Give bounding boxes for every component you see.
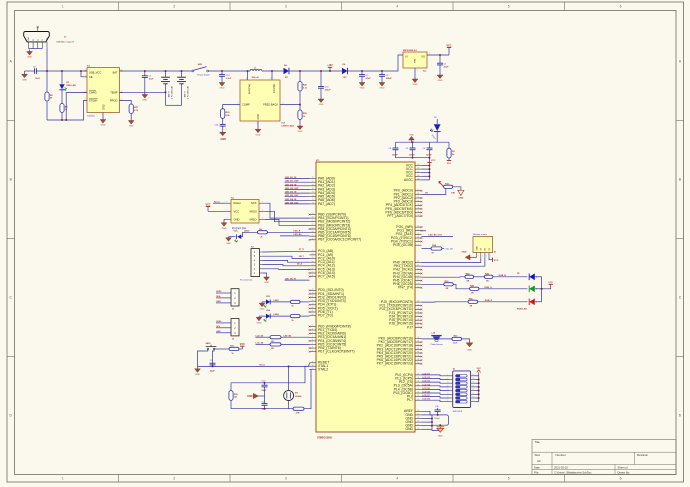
svg-text:LED_B2_OUT: LED_B2_OUT	[285, 188, 299, 190]
svg-text:33: 33	[312, 368, 314, 370]
svg-text:43: 43	[312, 289, 314, 291]
svg-text:89: 89	[417, 337, 419, 339]
svg-text:64: 64	[417, 304, 419, 306]
LED D3 RED-LED	[59, 71, 64, 104]
svg-text:Sheet of: Sheet of	[618, 465, 628, 469]
svg-text:SWITCH: SWITCH	[272, 84, 274, 93]
svg-text:Title: Title	[535, 440, 541, 444]
svg-text:31: 31	[417, 168, 419, 170]
wire main rail left segment	[25, 70, 35, 72]
svg-text:54: 54	[312, 254, 314, 256]
svg-text:LCD_D8: LCD_D8	[423, 399, 430, 401]
svg-text:GND: GND	[27, 57, 32, 59]
svg-text:97: 97	[417, 189, 419, 191]
svg-text:83: 83	[417, 359, 419, 361]
ground	[297, 125, 303, 134]
svg-text:29: 29	[417, 240, 419, 242]
svg-text:GND: GND	[216, 331, 221, 333]
wire cap bottom rail	[396, 157, 430, 159]
svg-text:GND: GND	[22, 79, 27, 81]
svg-text:26: 26	[312, 238, 314, 240]
svg-text:10: 10	[472, 397, 474, 399]
svg-text:3: 3	[257, 123, 258, 125]
svg-text:PD7_(T0): PD7_(T0)	[318, 314, 333, 318]
capacitor C3	[379, 71, 392, 81]
svg-text:95: 95	[417, 197, 419, 199]
svg-text:8: 8	[121, 69, 122, 71]
LED D8 red	[529, 299, 535, 306]
wire reset label isp	[213, 202, 225, 204]
resistor R21 27R	[293, 407, 304, 415]
svg-text:1: 1	[418, 244, 419, 246]
svg-text:PG5_(OC0B): PG5_(OC0B)	[393, 243, 413, 247]
wire nextion RX to PH1	[422, 257, 485, 266]
svg-text:3: 3	[285, 5, 287, 9]
svg-text:GND: GND	[256, 134, 261, 136]
svg-text:1: 1	[85, 69, 86, 71]
wire CHRG branch	[66, 93, 87, 121]
wire switch stub	[271, 71, 273, 80]
switch SW1 power switch	[192, 64, 211, 77]
svg-text:LED_B4_IN: LED_B4_IN	[285, 198, 297, 201]
svg-text:1: 1	[478, 256, 479, 258]
svg-text:67: 67	[417, 315, 419, 317]
connector J6	[216, 319, 239, 341]
svg-text:3: 3	[262, 210, 263, 212]
svg-text:PROG: PROG	[110, 99, 118, 103]
wire PROG to R27	[120, 100, 132, 104]
wire VBUS drop	[46, 49, 48, 72]
svg-text:6: 6	[312, 340, 313, 342]
svg-text:Photo Sensor: Photo Sensor	[431, 343, 443, 346]
resistor R31	[444, 183, 456, 194]
svg-text:PJ7: PJ7	[407, 325, 413, 329]
svg-text:48: 48	[312, 307, 314, 309]
wire charger gnd	[102, 113, 104, 119]
svg-text:10: 10	[417, 164, 419, 166]
svg-text:2: 2	[482, 256, 483, 258]
ground	[221, 222, 227, 230]
svg-text:FEED BACK: FEED BACK	[263, 103, 278, 107]
svg-text:36: 36	[417, 377, 419, 379]
svg-text:41: 41	[417, 395, 419, 397]
svg-text:59: 59	[312, 272, 314, 274]
no-connect marks right	[421, 190, 423, 365]
svg-text:VCC: VCC	[234, 231, 239, 233]
svg-text:2021-03-10: 2021-03-10	[554, 465, 568, 469]
wire COMP to R30	[223, 105, 240, 109]
svg-text:91: 91	[417, 211, 419, 213]
svg-text:VCC: VCC	[494, 260, 499, 262]
svg-text:5: 5	[508, 5, 510, 9]
svg-text:Drawn By:: Drawn By:	[618, 470, 631, 474]
capacitor C9	[33, 66, 41, 80]
svg-text:84: 84	[417, 355, 419, 357]
svg-text:4: 4	[490, 256, 491, 258]
svg-text:16: 16	[472, 374, 474, 376]
svg-text:?: ?	[85, 91, 86, 93]
ground	[142, 93, 148, 102]
svg-text:100nF: 100nF	[434, 418, 440, 420]
svg-text:24: 24	[312, 231, 314, 233]
svg-text:MOSI: MOSI	[250, 209, 257, 213]
svg-text:6: 6	[620, 5, 622, 9]
svg-text:VCC: VCC	[205, 204, 210, 207]
resistor R28	[298, 82, 308, 92]
svg-text:47uF: 47uF	[444, 65, 450, 68]
ground	[437, 74, 443, 83]
svg-text:PL7: PL7	[407, 398, 413, 402]
svg-text:GND: GND	[462, 251, 467, 253]
svg-text:GND: GND	[438, 436, 443, 438]
wire boost gnd	[257, 121, 259, 128]
svg-text:32: 32	[417, 417, 419, 419]
mic29300 pin numbers	[400, 53, 431, 72]
ground isp	[224, 218, 225, 220]
LED D7 green	[529, 286, 535, 293]
wire reset to pin	[307, 363, 310, 367]
svg-text:LED5: LED5	[216, 291, 222, 293]
wire LCD_D6 to PE3	[281, 336, 310, 338]
svg-text:49: 49	[312, 311, 314, 313]
svg-text:TEMP: TEMP	[110, 91, 117, 95]
ground VD3	[262, 301, 266, 303]
wire R20 legs	[230, 383, 232, 391]
svg-text:58: 58	[312, 268, 314, 270]
svg-text:LED_B1_IN: LED_B1_IN	[285, 177, 297, 179]
svg-text:VCC: VCC	[548, 282, 553, 284]
power +12V	[327, 65, 333, 71]
svg-text:30: 30	[312, 361, 314, 363]
svg-text:LCD_D6: LCD_D6	[423, 392, 430, 394]
capacitor C6	[422, 142, 432, 158]
svg-text:J5: J5	[232, 309, 234, 311]
wire CE branch	[81, 71, 87, 77]
svg-text:13: 13	[417, 265, 419, 267]
wire AREF to C12	[422, 411, 431, 415]
svg-text:4: 4	[396, 477, 398, 481]
power VCC nextion	[489, 257, 493, 259]
capacitor C1	[437, 55, 449, 74]
svg-text:CE: CE	[89, 75, 93, 79]
ground	[259, 302, 265, 310]
svg-text:GND: GND	[380, 88, 385, 90]
ground	[195, 366, 201, 376]
svg-text:47: 47	[312, 303, 314, 305]
IC1 left pins	[310, 177, 362, 372]
op-amp IC1 ATMEGA2560 body	[316, 162, 415, 432]
svg-text:GND: GND	[101, 125, 106, 127]
svg-text:File:: File:	[534, 470, 539, 474]
svg-text:?: ?	[85, 99, 86, 101]
svg-text:5: 5	[312, 336, 313, 338]
svg-text:GND: GND	[257, 323, 262, 325]
svg-text:11: 11	[472, 393, 474, 395]
resistor R47	[452, 334, 462, 340]
wire R28 top	[299, 71, 301, 82]
resistor R40	[270, 301, 290, 303]
net labels LED_B on PA pins	[285, 177, 310, 204]
op-amp X3 ISP header	[225, 197, 265, 230]
svg-text:52: 52	[417, 229, 419, 231]
resistor R29	[298, 110, 308, 120]
svg-text:93: 93	[417, 204, 419, 206]
svg-text:68: 68	[417, 319, 419, 321]
resistor R6	[258, 229, 268, 238]
svg-text:11: 11	[417, 414, 419, 416]
inductor L1	[250, 68, 262, 79]
wire R47 to gnd	[462, 339, 470, 343]
wire R40 to PD3	[300, 301, 310, 303]
capacitor C10 xtal	[262, 381, 268, 396]
svg-text:D5: D5	[517, 273, 519, 275]
svg-text:MISO: MISO	[250, 217, 257, 221]
svg-text:LCD_D1: LCD_D1	[423, 373, 430, 375]
wires MCU gnd bus	[422, 415, 441, 431]
svg-text:Revision: Revision	[637, 453, 648, 457]
svg-text:LED_B4_OUT: LED_B4_OUT	[285, 201, 299, 204]
ground	[264, 276, 270, 284]
svg-text:3.7V 2000 mAh: 3.7V 2000 mAh	[171, 86, 174, 99]
svg-text:100nF: 100nF	[409, 154, 416, 156]
svg-text:CHRG: CHRG	[89, 91, 97, 95]
svg-text:38: 38	[417, 384, 419, 386]
svg-text:51: 51	[417, 226, 419, 228]
RGB row red	[422, 301, 469, 303]
svg-text:13: 13	[472, 385, 474, 387]
isp pin numbers	[227, 202, 264, 220]
svg-text:LED4: LED4	[274, 313, 280, 316]
ground	[256, 316, 262, 324]
svg-text:Rx connector: Rx connector	[240, 279, 253, 282]
svg-text:Power Switch: Power Switch	[197, 74, 210, 77]
svg-text:LED_B2_IN: LED_B2_IN	[285, 184, 297, 186]
wire R27 bottom	[130, 114, 132, 120]
svg-text:5: 5	[508, 477, 510, 481]
op-amp X1 Nextion screen	[473, 233, 497, 257]
svg-text:19: 19	[417, 286, 419, 288]
svg-text:LED6: LED6	[216, 321, 222, 323]
svg-text:2: 2	[173, 477, 175, 481]
svg-text:10uF: 10uF	[149, 78, 155, 80]
ground	[226, 237, 232, 245]
svg-text:LED2: LED2	[244, 230, 250, 232]
capacitor C12	[434, 406, 441, 420]
svg-text:7: 7	[312, 343, 313, 345]
wire LED_BL to PB6	[280, 235, 310, 237]
svg-text:22pF: 22pF	[262, 390, 268, 392]
svg-text:RGB_B: RGB_B	[499, 275, 507, 277]
svg-text:PH7_(T4): PH7_(T4)	[398, 286, 413, 290]
svg-text:5: 5	[262, 218, 263, 220]
svg-text:2: 2	[312, 325, 313, 327]
power VCC	[446, 45, 451, 56]
resistor R34 lcd	[422, 248, 432, 250]
svg-text:94: 94	[417, 200, 419, 202]
svg-text:75: 75	[312, 188, 314, 190]
svg-text:15: 15	[472, 378, 474, 380]
svg-text:47uF: 47uF	[366, 77, 372, 80]
capacitor C13 bulk	[318, 71, 331, 98]
svg-text:ATMEGA2560: ATMEGA2560	[317, 437, 333, 440]
svg-text:C:\Users\..\Blakalaurinis.SchD: C:\Users\..\Blakalaurinis.SchDoc	[554, 470, 592, 474]
svg-text:71: 71	[312, 203, 314, 205]
svg-text:87: 87	[417, 344, 419, 346]
svg-text:18: 18	[417, 283, 419, 285]
IC1 right pins	[377, 163, 422, 431]
svg-text:GND: GND	[413, 84, 418, 86]
capacitor C11 xtal	[262, 396, 268, 410]
svg-text:LCD_D4: LCD_D4	[423, 383, 431, 386]
power VCC reset	[239, 348, 242, 350]
ground	[255, 128, 261, 136]
net label LED_B5_IN	[285, 279, 310, 281]
svg-text:GND: GND	[222, 228, 227, 230]
LED D5 blue	[529, 274, 535, 281]
svg-text:LCD_D5: LCD_D5	[423, 388, 430, 390]
RGB row blue	[422, 276, 465, 278]
svg-text:XTAL2: XTAL2	[318, 368, 328, 372]
svg-text:72: 72	[312, 199, 314, 201]
svg-text:D+: D+	[37, 39, 39, 41]
svg-text:4: 4	[396, 5, 398, 9]
svg-text:GND: GND	[409, 134, 414, 136]
svg-text:SB20: SB20	[206, 343, 212, 345]
svg-text:96: 96	[417, 193, 419, 195]
resistor R20	[229, 391, 239, 401]
svg-text:GND: GND	[467, 349, 472, 351]
svg-text:Reset: Reset	[234, 201, 241, 205]
svg-text:BATT1: BATT1	[184, 91, 187, 97]
svg-text:0.1uF: 0.1uF	[226, 78, 232, 80]
wire vin stub	[247, 71, 249, 80]
battery BATT2	[161, 71, 174, 105]
wire R2 legs	[448, 142, 450, 148]
capacitor C14	[214, 118, 227, 134]
svg-text:LCD_D3: LCD_D3	[423, 381, 430, 383]
svg-text:XT_R: XT_R	[299, 249, 304, 251]
svg-text:15: 15	[417, 272, 419, 274]
LED VD3	[266, 296, 280, 305]
wire main rail after C9	[36, 70, 87, 72]
switch SW20 reset button	[206, 343, 217, 350]
svg-text:1: 1	[429, 53, 430, 55]
op-amp IC4 LM2577-ADJ	[240, 80, 280, 121]
svg-text:82: 82	[417, 362, 419, 364]
title block	[532, 439, 676, 474]
svg-text:88: 88	[417, 341, 419, 343]
wires X2 to PC pins	[263, 251, 310, 269]
capacitor C10 input	[219, 71, 232, 81]
svg-text:56: 56	[312, 261, 314, 263]
svg-text:D4056a: D4056a	[88, 115, 96, 117]
svg-text:J6: J6	[232, 339, 234, 341]
svg-text:BAT: BAT	[113, 71, 118, 75]
svg-text:GND: GND	[438, 80, 443, 82]
svg-text:SDA: SDA	[216, 295, 221, 298]
wire LCD_D8 to PE5	[281, 343, 310, 345]
svg-text:GND: GND	[129, 126, 134, 128]
RGB row green	[422, 283, 444, 285]
svg-text:LED_B3_OUT: LED_B3_OUT	[285, 195, 299, 197]
svg-text:73: 73	[312, 195, 314, 197]
svg-text:+12V: +12V	[327, 65, 333, 67]
svg-text:4: 4	[312, 332, 313, 334]
lm2577 pin numbers	[238, 78, 284, 125]
wire rgb vcc	[542, 284, 551, 289]
svg-text:A4: A4	[537, 459, 541, 463]
ground mcu open style	[437, 427, 445, 438]
ground VD4	[259, 315, 266, 317]
svg-text:99: 99	[417, 428, 419, 430]
svg-text:5: 5	[246, 78, 247, 80]
wire R29 bottom	[299, 120, 301, 125]
wire battery bottom rail	[166, 104, 182, 106]
svg-text:GND: GND	[477, 246, 479, 251]
svg-text:VCC: VCC	[447, 163, 452, 165]
ground photo	[466, 343, 473, 352]
wire xtal1 rail	[231, 366, 310, 383]
wire sw20 left leg	[198, 350, 208, 367]
svg-text:76: 76	[312, 184, 314, 186]
switch S1 SW DIP-8	[447, 369, 474, 414]
svg-text:VCC: VCC	[446, 45, 451, 48]
svg-text:GND: GND	[195, 374, 200, 376]
svg-text:2: 2	[121, 99, 122, 101]
ground nextion	[462, 251, 470, 260]
charger pin stubs	[84, 69, 124, 100]
svg-text:62: 62	[417, 421, 419, 423]
wire vcc pins bus	[422, 158, 436, 180]
connector X2 Rx	[240, 247, 263, 282]
svg-text:150R: 150R	[453, 343, 458, 345]
photo sensor L34	[422, 332, 452, 346]
wire USB gnd pins	[29, 48, 43, 50]
wire R31 tap to PF1	[422, 188, 446, 194]
wire 27R to xtal2 pin	[304, 370, 311, 409]
svg-text:37: 37	[417, 381, 419, 383]
svg-text:4: 4	[227, 210, 228, 212]
svg-text:GND: GND	[142, 100, 147, 102]
svg-text:PF7_(ADC7/TDI): PF7_(ADC7/TDI)	[387, 214, 413, 218]
svg-text:SD_A: SD_A	[297, 262, 303, 265]
ground usb shield	[27, 50, 33, 59]
svg-text:9: 9	[312, 350, 313, 352]
ground	[412, 78, 418, 87]
svg-text:GND: GND	[226, 243, 231, 245]
wire bottom row to charger	[47, 100, 87, 120]
capacitor C7	[142, 71, 154, 93]
ground	[219, 81, 225, 90]
wire R28 to R29	[299, 91, 301, 110]
svg-text:LM2577-ADJ: LM2577-ADJ	[282, 124, 295, 127]
svg-text:PE7_(CLKO/ICP3/INT7): PE7_(CLKO/ICP3/INT7)	[318, 350, 355, 354]
svg-text:74: 74	[312, 192, 314, 194]
wire rail D6 to regulator	[348, 55, 403, 71]
svg-text:2: 2	[417, 70, 418, 72]
svg-text:22: 22	[312, 224, 314, 226]
wire rgb common	[541, 277, 543, 302]
svg-text:100uF: 100uF	[325, 90, 332, 92]
ground	[220, 131, 226, 136]
svg-text:LED_B1_OUT: LED_B1_OUT	[285, 181, 299, 183]
ground	[100, 118, 106, 127]
svg-text:GND: GND	[264, 282, 269, 284]
svg-text:20: 20	[312, 217, 314, 219]
power VCC pf pot	[439, 181, 444, 187]
svg-text:86: 86	[417, 348, 419, 350]
diode D4	[284, 68, 289, 74]
